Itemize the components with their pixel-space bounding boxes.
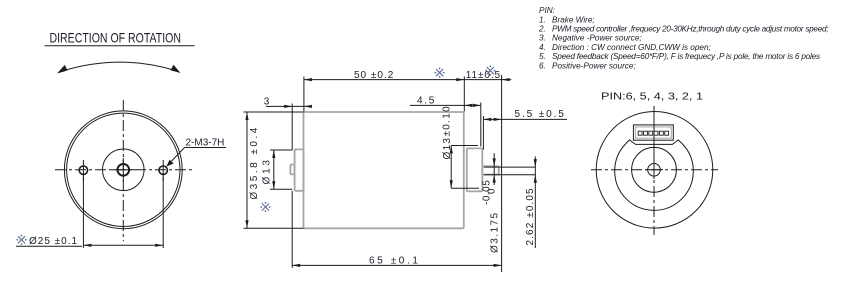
svg-text:Speed feedback (Speed=60*F/P),: Speed feedback (Speed=60*F/P), F is freq… bbox=[552, 52, 820, 61]
svg-text:Ø35.8 ±0.4: Ø35.8 ±0.4 bbox=[249, 125, 260, 199]
svg-text:DIRECTION OF ROTATION: DIRECTION OF ROTATION bbox=[50, 30, 182, 46]
svg-text:3: 3 bbox=[264, 97, 270, 108]
outer circle bbox=[596, 112, 713, 229]
svg-text:Negative -Power source;: Negative -Power source; bbox=[552, 34, 642, 43]
dim D35.8 bbox=[244, 111, 304, 113]
centerlines bbox=[653, 106, 655, 235]
leader 2-M3-7H bbox=[168, 148, 185, 165]
connector pins bbox=[638, 131, 668, 135]
svg-text:6.: 6. bbox=[539, 61, 546, 70]
svg-text:65 ±0.1: 65 ±0.1 bbox=[369, 255, 421, 266]
title underline bbox=[45, 45, 195, 47]
connector housing bbox=[633, 125, 673, 140]
dim D13 right bbox=[451, 145, 478, 147]
rotation arc arrow bbox=[61, 62, 177, 71]
dim D13 left bbox=[270, 149, 292, 151]
right boss bbox=[467, 148, 483, 191]
svg-text:PIN:: PIN: bbox=[539, 6, 555, 15]
mounting hole right bbox=[159, 166, 167, 174]
top dim line 50 / 11 bbox=[304, 79, 511, 81]
shaft bbox=[482, 166, 499, 174]
dim 5.5 bbox=[483, 118, 567, 120]
left bearing bump bbox=[290, 165, 294, 175]
centerline horizontal bbox=[55, 169, 192, 171]
svg-text:50 ±0.2: 50 ±0.2 bbox=[354, 70, 394, 81]
dim 3 bbox=[266, 105, 312, 107]
svg-text:2.: 2. bbox=[538, 25, 546, 34]
dim D3.175 bbox=[493, 153, 495, 185]
svg-text:11±0.5: 11±0.5 bbox=[466, 70, 501, 81]
inner boss circle bbox=[103, 149, 145, 191]
pin label bbox=[601, 91, 704, 102]
dim 2.62 bbox=[484, 166, 536, 168]
dim 65 bbox=[291, 191, 293, 268]
svg-text:Ø3.175: Ø3.175 bbox=[489, 211, 500, 253]
svg-text:2-M3-7H: 2-M3-7H bbox=[186, 137, 225, 148]
shaft circle bbox=[118, 164, 130, 176]
svg-text:4.5: 4.5 bbox=[417, 96, 436, 107]
dim 4.5 bbox=[410, 104, 481, 106]
svg-text:Ø25 ±0.1: Ø25 ±0.1 bbox=[29, 236, 78, 247]
svg-text:2.62 ±0.05: 2.62 ±0.05 bbox=[525, 187, 536, 245]
mounting hole left bbox=[79, 166, 87, 174]
dimension D25 bbox=[82, 177, 84, 248]
svg-text:0: 0 bbox=[487, 188, 498, 194]
svg-text:PWM speed controller ,frequecy: PWM speed controller ,frequecy 20-30KHz,… bbox=[552, 25, 828, 34]
svg-text:Direction : CW connect GND,CWW: Direction : CW connect GND,CWW is open; bbox=[552, 43, 711, 52]
motor outer circle (double) bbox=[64, 111, 182, 229]
svg-text:±0.10: ±0.10 bbox=[441, 105, 452, 136]
svg-text:5.: 5. bbox=[539, 52, 546, 61]
svg-text:5.5 ±0.5: 5.5 ±0.5 bbox=[515, 109, 566, 120]
motor body bbox=[304, 112, 464, 228]
svg-text:3.: 3. bbox=[539, 34, 546, 43]
inner circle bbox=[632, 147, 677, 192]
svg-text:Ø13: Ø13 bbox=[442, 137, 453, 160]
svg-text:Positive-Power source;: Positive-Power source; bbox=[552, 61, 636, 70]
centerline vertical bbox=[122, 100, 124, 241]
svg-text:Brake Wire;: Brake Wire; bbox=[552, 15, 595, 24]
svg-text:PIN:6, 5, 4, 3, 2, 1: PIN:6, 5, 4, 3, 2, 1 bbox=[601, 91, 704, 102]
left boss bbox=[295, 149, 304, 190]
svg-text:4.: 4. bbox=[539, 43, 546, 52]
svg-text:1.: 1. bbox=[539, 15, 546, 24]
shaft circle bbox=[648, 164, 661, 177]
title: DIRECTION OF ROTATION bbox=[50, 30, 182, 46]
svg-text:Ø13: Ø13 bbox=[261, 157, 272, 184]
middle circle with top notch bbox=[615, 144, 694, 210]
